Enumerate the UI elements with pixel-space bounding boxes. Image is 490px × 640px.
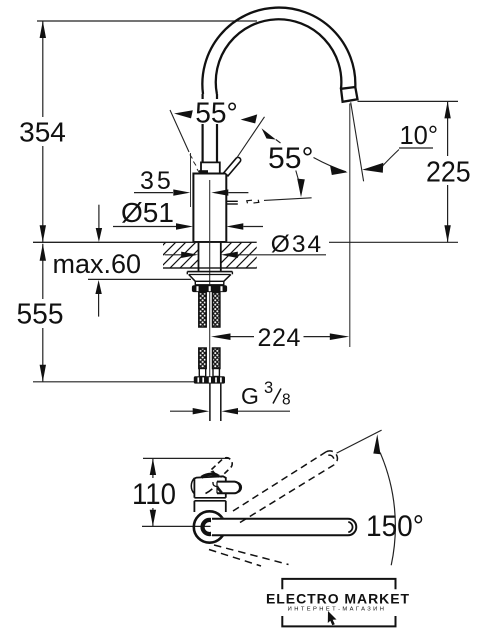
svg-text:ИНТЕРНЕТ-МАГАЗИН: ИНТЕРНЕТ-МАГАЗИН (288, 606, 387, 612)
svg-text:Ø51: Ø51 (121, 197, 174, 228)
svg-text:max.60: max.60 (53, 249, 142, 279)
svg-text:35: 35 (140, 167, 174, 195)
dimension 10 deg (314, 102, 439, 347)
dark stripe on top (202, 474, 220, 477)
svg-text:354: 354 (19, 117, 66, 148)
dimension 225 (329, 101, 471, 242)
wire: counter bottom line (163, 267, 257, 269)
wire: outlet slant line (351, 102, 364, 181)
top view: lever grip cylinder (217, 482, 241, 494)
fitting nuts (black band) (194, 376, 225, 383)
collar (201, 162, 220, 173)
dimension G 3/8 (170, 379, 291, 414)
hatch right (206, 242, 282, 268)
dimension 150 deg (337, 430, 424, 565)
svg-text:555: 555 (17, 299, 64, 331)
hose lower right braid (213, 348, 220, 369)
svg-text:G: G (241, 383, 259, 409)
node: plumb line from spout outlet (349, 104, 351, 348)
spout riser tube (203, 94, 217, 162)
svg-text:Ø34: Ø34 (271, 231, 323, 258)
top view: cartridge body block (194, 472, 225, 498)
wire: counter top line (33, 241, 257, 243)
dimension diam 51 (113, 197, 263, 230)
node: body center line (209, 180, 211, 380)
hose upper left (199, 293, 206, 328)
countertop (33, 242, 282, 268)
hose lower left tube (199, 369, 205, 377)
top view: base band (194, 498, 225, 512)
top view: spout bar (211, 518, 356, 536)
spout aerator tip (341, 87, 358, 102)
top view: cartridge ring (thick C) (203, 520, 217, 534)
logo cursor (328, 611, 337, 625)
dimension 35 (134, 167, 248, 196)
svg-text:225: 225 (426, 156, 471, 188)
hose lower left braid (199, 348, 206, 369)
top view: neck marks (206, 482, 222, 494)
top view: dashed spout (raised position) (233, 451, 337, 523)
faucet body (193, 174, 226, 243)
mounting nut (black) (192, 285, 227, 292)
lever handle (raised) (224, 157, 241, 176)
mounting bell flange (187, 272, 232, 282)
top view: dashed spout (lower position) (209, 545, 289, 566)
svg-text:10°: 10° (400, 122, 439, 150)
dimension max.60 (53, 205, 192, 317)
shank through counter (199, 242, 221, 271)
svg-text:110: 110 (132, 478, 176, 511)
G3/8 connection tube (210, 384, 221, 421)
svg-text:55°: 55° (195, 97, 238, 129)
svg-text:150°: 150° (366, 510, 424, 543)
wire: top reference line (354 top) (37, 20, 257, 22)
hatch left (140, 242, 216, 268)
logo frame (282, 579, 395, 627)
dimension 55 deg (lever swivel) (227, 117, 314, 204)
top view: swivel base outer circle (194, 511, 225, 542)
dimension 224 (211, 324, 349, 352)
dimension 354 (19, 21, 66, 242)
top view: handle knob dashed (212, 458, 233, 478)
dimension 110 (132, 458, 176, 526)
mounting washer (195, 281, 224, 285)
spout gooseneck outer arc (202, 8, 355, 94)
hose upper right (213, 293, 220, 328)
wire: 110 bottom reference line (142, 525, 211, 527)
wire: outlet level reference line (358, 100, 459, 102)
wire: 110 top reference line (143, 457, 229, 459)
svg-text:3: 3 (264, 379, 273, 397)
svg-text:224: 224 (258, 324, 302, 352)
svg-text:ELECTRO MARKET: ELECTRO MARKET (266, 591, 410, 607)
wire: 555 bottom reference line (33, 381, 194, 383)
dimension 555 (17, 244, 195, 382)
svg-text:55°: 55° (268, 142, 314, 175)
dimension 55 deg (lever lift) (170, 97, 257, 207)
dimension diam 34 (165, 231, 327, 258)
wire: counter level reference line (right) (329, 241, 458, 243)
spout gooseneck inner arc (216, 19, 342, 94)
svg-text:8: 8 (282, 392, 291, 409)
hose lower right tube (213, 369, 219, 377)
top view: left bump arc (191, 478, 194, 493)
indicator mark (black) (199, 170, 208, 173)
lever handle (horizontal, dashed) (227, 200, 238, 202)
